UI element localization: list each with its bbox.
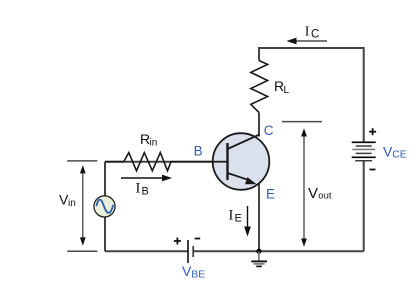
svg-text:C: C <box>264 123 274 138</box>
svg-text:B: B <box>142 186 149 198</box>
svg-text:in: in <box>150 138 158 149</box>
svg-text:C: C <box>311 29 319 41</box>
svg-text:E: E <box>266 186 275 201</box>
svg-text:E: E <box>235 213 242 225</box>
svg-text:I: I <box>136 181 141 197</box>
svg-text:CE: CE <box>392 148 407 160</box>
svg-text:B: B <box>194 143 203 158</box>
svg-text:BE: BE <box>191 268 205 280</box>
svg-text:V: V <box>308 185 318 202</box>
svg-text:out: out <box>318 190 332 201</box>
svg-text:in: in <box>68 198 76 209</box>
svg-text:I: I <box>305 24 310 39</box>
svg-text:I: I <box>229 208 234 224</box>
svg-text:L: L <box>284 85 290 96</box>
